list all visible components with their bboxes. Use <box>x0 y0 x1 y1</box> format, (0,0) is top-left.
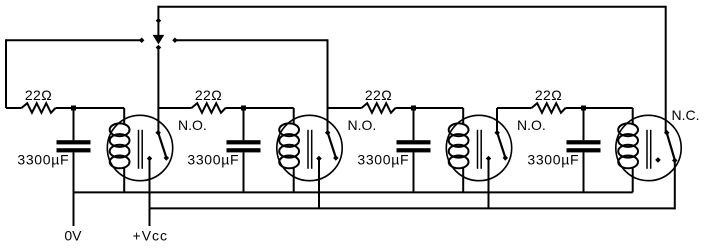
svg-text:3300µF: 3300µF <box>187 152 239 168</box>
relay K1 <box>107 108 172 192</box>
resistor R1 22&#937; <box>22 103 56 113</box>
label C2 value 3300&#181;F <box>187 152 239 168</box>
svg-text:3300µF: 3300µF <box>527 152 579 168</box>
capacitor C3 3300&#181;F <box>397 108 431 192</box>
changeover armature arrow (relay contact wiper) <box>153 35 165 45</box>
wire stage 3 rail left lead <box>328 107 362 109</box>
svg-text:22Ω: 22Ω <box>365 87 392 103</box>
wire bottom 0V rail <box>74 191 633 193</box>
label relay K2 contact N.O. <box>348 117 377 133</box>
svg-text:N.O.: N.O. <box>517 117 546 133</box>
capacitor C2 3300&#181;F <box>227 108 261 192</box>
wire short segment into armature arrow <box>157 21 159 36</box>
svg-text:N.O.: N.O. <box>178 117 207 133</box>
label relay K1 contact N.O. <box>178 117 207 133</box>
wire stage 4 rail right segment <box>566 107 633 109</box>
wire stage 2 rail left lead <box>158 107 191 109</box>
label +Vcc supply terminal <box>133 228 169 244</box>
svg-text:3300µF: 3300µF <box>17 152 69 168</box>
label R2 value 22&#937; <box>195 87 222 103</box>
capacitor C4 3300&#181;F <box>567 108 601 192</box>
relay K4 <box>616 108 681 192</box>
wire +Vcc right riser to relay K4 NC contact <box>674 160 676 209</box>
node stage 2 RC junction <box>241 106 246 111</box>
node stage 1 RC junction <box>71 106 76 111</box>
capacitor C1 3300&#181;F <box>57 108 91 192</box>
wire stage 1 rail left lead <box>6 107 22 109</box>
label 0V supply terminal <box>64 228 82 244</box>
wire stage 4 rail left lead <box>497 107 532 109</box>
label relay K4 contact N.C. <box>672 107 700 123</box>
label C1 value 3300&#181;F <box>17 152 69 168</box>
label R1 value 22&#937; <box>25 87 52 103</box>
svg-text:0V: 0V <box>64 228 82 244</box>
resistor R2 22&#937; <box>192 103 226 113</box>
label R3 value 22&#937; <box>365 87 392 103</box>
node stage 4 RC junction <box>581 106 586 111</box>
svg-text:22Ω: 22Ω <box>25 87 52 103</box>
node armature lower terminal <box>156 45 162 50</box>
relay K3 <box>446 108 511 192</box>
wire relay K3 NO contact drop to +Vcc rail <box>488 159 490 209</box>
wire relay K2 NO contact drop to +Vcc rail <box>318 159 320 209</box>
svg-text:3300µF: 3300µF <box>357 152 409 168</box>
wire common feed down from top rail to changeover arrow <box>157 6 159 21</box>
wire stage 2 rail right segment <box>226 107 294 109</box>
wire top rail from changeover common to relay K4 common <box>158 6 665 8</box>
svg-text:22Ω: 22Ω <box>535 87 562 103</box>
svg-text:N.C.: N.C. <box>672 107 700 123</box>
node right throw contact <box>172 38 178 44</box>
relay K2 <box>277 108 342 192</box>
wire right drop to relay K4 switch common <box>665 6 667 134</box>
resistor R3 22&#937; <box>362 103 396 113</box>
label C3 value 3300&#181;F <box>357 152 409 168</box>
label relay K3 contact N.O. <box>517 117 546 133</box>
svg-text:N.O.: N.O. <box>348 117 377 133</box>
svg-text:+Vcc: +Vcc <box>133 228 169 244</box>
wire stage 1 rail right segment <box>56 107 125 109</box>
node stage 3 RC junction <box>411 106 416 111</box>
wire left throw contact feed to stage 1 resistor input <box>6 39 141 108</box>
wire 0V stub <box>73 192 75 226</box>
label C4 value 3300&#181;F <box>527 152 579 168</box>
resistor R4 22&#937; <box>532 103 566 113</box>
node left throw contact <box>139 38 145 44</box>
wire relay K1 NO contact drop to +Vcc rail <box>149 159 151 227</box>
svg-text:22Ω: 22Ω <box>195 87 222 103</box>
label R4 value 22&#937; <box>535 87 562 103</box>
wire right throw contact to relay K2 common riser <box>175 39 328 132</box>
wire relay K3 common riser to stage 4 rail <box>496 108 498 133</box>
node common terminal of changeover contact <box>156 18 162 24</box>
wire bottom +Vcc rail <box>150 207 675 209</box>
wire relay K1 common riser (arrow to pivot, feeds stage 2 rail) <box>157 48 159 133</box>
wire stage 3 rail right segment <box>396 107 464 109</box>
